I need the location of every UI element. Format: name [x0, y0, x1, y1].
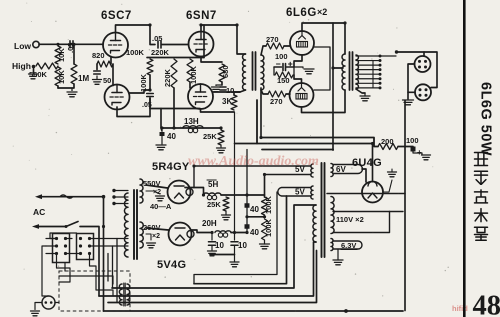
- svg-text:100K: 100K: [264, 195, 273, 214]
- tube V5 6U4G rectifier: [362, 182, 383, 203]
- transformer T3 550V winding: [140, 179, 143, 203]
- page border rule: [463, 0, 466, 317]
- capacitor 10 first: [209, 242, 216, 246]
- resistor 680 cathode: [219, 64, 225, 82]
- wire heater bus risers right: [116, 239, 118, 303]
- capacitor .05 input coupling: [70, 41, 73, 48]
- wire TB1 inner drop: [66, 238, 73, 240]
- transformer T2 core: [350, 52, 353, 90]
- node T3 primary taps: [114, 190, 128, 192]
- wire 820 to 50 cap: [96, 64, 98, 70]
- transformer T4 HV secondary left: [313, 205, 316, 242]
- op-amp U1 6SC7 triode A: [103, 33, 128, 58]
- page title vertical latin part: [478, 82, 494, 156]
- wire 6SC7 B plate: [130, 90, 151, 93]
- wire T1 secondary top to 270 grid resistor: [261, 46, 266, 55]
- svg-text:40: 40: [167, 132, 176, 141]
- switch S1: [66, 222, 78, 227]
- wire sockets left side: [408, 64, 415, 92]
- ground 6SN7 cathode: [212, 87, 221, 92]
- wire 6V to 6U4G: [362, 169, 366, 182]
- wire 680 bottom: [221, 82, 223, 85]
- transformer T1 core: [253, 52, 256, 90]
- wire V2 cathode to network: [294, 75, 302, 83]
- resistor 220K divider: [171, 59, 177, 88]
- wire T2 primary center tap B+: [333, 67, 343, 69]
- wire 5R4GY cathode to 5H: [185, 188, 204, 196]
- lamp PL1 pilot: [42, 296, 55, 309]
- wire 5V1 riser to 5R4GY: [193, 166, 195, 188]
- svg-text:20H: 20H: [202, 219, 217, 228]
- wire 13H feed riser: [332, 149, 334, 152]
- node High input junction: [32, 65, 36, 69]
- wire 6SC7 B cathode loop: [117, 98, 150, 117]
- wire T1 secondary center tap down: [260, 88, 262, 138]
- transformer T2 output primary: [342, 54, 345, 90]
- svg-text:6L6G: 6L6G: [286, 7, 317, 19]
- svg-text:6.3V: 6.3V: [341, 241, 356, 250]
- wire second 10 cap bus: [210, 254, 235, 256]
- wire B+ rail y57: [147, 57, 204, 59]
- capacitor 40 first filter: [245, 203, 250, 208]
- svg-text:100K: 100K: [126, 48, 145, 57]
- wire 10 second stub: [234, 112, 236, 255]
- svg-text:5V4G: 5V4G: [157, 259, 186, 271]
- resistor 560K: [36, 63, 58, 69]
- wire secondary top tap to sockets: [396, 52, 437, 88]
- svg-text:5R4GY: 5R4GY: [152, 161, 190, 173]
- page title vertical kanji glyphs: [475, 153, 488, 166]
- resistor 270 upper grid: [266, 43, 284, 49]
- wire 6SN7 B cathode line: [201, 109, 235, 112]
- wire 6SC7 A cathode: [110, 57, 112, 65]
- transformer T3 HV primary: [124, 193, 128, 257]
- wire V2 plate to OPT bottom: [302, 90, 346, 113]
- wire AC line 2 switch: [32, 224, 39, 229]
- wire 13H line: [162, 127, 221, 129]
- transformer T4 6V winding: [333, 165, 363, 174]
- wire bus from interstage CT to 200 ohm: [261, 138, 378, 147]
- resistor 820 cathode: [97, 61, 113, 67]
- svg-text:6SC7: 6SC7: [101, 10, 132, 22]
- svg-text:10K: 10K: [57, 48, 66, 62]
- wire 100K A bottom: [149, 75, 151, 90]
- tube V4 5V4G rectifier: [169, 223, 192, 246]
- connector J1 speaker socket upper: [415, 56, 431, 72]
- wire lamp to aux transformer: [55, 302, 59, 304]
- svg-text:50: 50: [103, 76, 111, 85]
- wire 270 to 6L6G V2 grid: [286, 93, 290, 95]
- wire V1 cathode to network: [294, 55, 302, 67]
- wire 6U4G plate riser: [372, 144, 374, 182]
- wire bleeder top riser: [264, 175, 266, 198]
- svg-text:220K: 220K: [151, 48, 170, 57]
- svg-text:820: 820: [92, 51, 105, 60]
- resistor 1M: [71, 64, 77, 84]
- node bottom bus junction: [344, 309, 348, 313]
- svg-text:10: 10: [215, 241, 224, 250]
- wire 6L6G screen bus: [314, 47, 330, 90]
- wire socket upper top pin: [423, 52, 425, 56]
- wire block riser left: [42, 246, 49, 296]
- svg-text:40—A: 40—A: [150, 202, 172, 211]
- resistor 25K bleeder upper: [218, 130, 224, 145]
- svg-text:48: 48: [473, 291, 500, 317]
- ground 25K upper: [217, 148, 226, 153]
- wire B+ rail riser: [203, 25, 205, 58]
- resistor 3K: [231, 95, 237, 110]
- wire T1 secondary bottom to 270 lower: [261, 90, 268, 94]
- ground second 10 cap: [230, 262, 239, 267]
- wire 6SC7 B cathode: [112, 64, 114, 86]
- resistor 270 lower grid: [268, 91, 286, 97]
- ground 10 first: [208, 251, 217, 256]
- connector TB2 block: [77, 234, 94, 260]
- svg-text:40: 40: [250, 228, 259, 237]
- wire heater bus 1: [107, 254, 109, 282]
- wire 270 to 6L6G V1 grid: [284, 45, 290, 47]
- svg-text:AC: AC: [33, 207, 45, 217]
- ground cathode 6SC7: [93, 80, 102, 85]
- tube V3 5R4GY rectifier: [168, 181, 191, 204]
- op-amp U1 6SC7 triode B: [105, 85, 130, 110]
- svg-text:.05: .05: [152, 34, 162, 43]
- wire 100K B bottom: [189, 82, 191, 88]
- wire 20H to 40uF: [231, 232, 247, 234]
- resistor 10K upper: [55, 46, 61, 64]
- svg-text:hifid: hifid: [452, 304, 468, 313]
- ground 6.3V center tap: [333, 260, 343, 265]
- svg-text:680: 680: [221, 65, 230, 78]
- ground cathode 6L6G: [304, 69, 314, 74]
- svg-text:10: 10: [226, 86, 234, 95]
- node junction dots: [56, 43, 59, 46]
- wire TB1 TB2 link top: [50, 233, 77, 239]
- wire V1 plate to OPT top: [302, 23, 345, 54]
- wire 6SC7 A plate to B+ rail: [116, 25, 151, 33]
- wire 6SN7 A plate to B+: [201, 25, 237, 32]
- connector TB1 block: [53, 234, 70, 263]
- svg-text:www.Audio-audio.com: www.Audio-audio.com: [188, 154, 319, 169]
- wire crossbar mid: [247, 216, 265, 218]
- ground 550V center tap: [156, 196, 165, 201]
- svg-text:×2: ×2: [152, 233, 160, 240]
- ground grid network: [67, 92, 77, 97]
- wire 1M top stub: [73, 44, 75, 64]
- wire HV secondary top line: [327, 193, 405, 195]
- wire filter caps vertical: [246, 150, 248, 233]
- wire TB1 bottom pin drop: [57, 254, 71, 283]
- wire 260V to 5V4G: [146, 228, 169, 230]
- node Low input terminal: [33, 41, 39, 47]
- svg-text:100K: 100K: [264, 218, 273, 237]
- ground 100uF: [422, 155, 431, 160]
- svg-text:5V: 5V: [295, 188, 305, 197]
- svg-text:3K: 3K: [222, 97, 232, 106]
- wire bottom bus: [104, 310, 404, 312]
- transformer T5 heater coils: [119, 284, 122, 305]
- svg-text:100K: 100K: [189, 65, 198, 84]
- wire TB1 left stubs: [46, 238, 57, 240]
- wire 6L6G return bus: [257, 100, 373, 144]
- inductor 13H choke: [183, 126, 203, 128]
- ground 6U4G stub: [388, 172, 397, 177]
- svg-text:5H: 5H: [208, 180, 218, 189]
- dashed chassis boundary: [59, 271, 130, 311]
- capacitor .05 coupling lower: [147, 94, 154, 97]
- wire 110V return down: [108, 251, 317, 303]
- svg-text:270: 270: [266, 35, 279, 44]
- capacitor 100uF screen filter: [411, 147, 416, 152]
- wire grid network bottom: [58, 84, 74, 88]
- wire TB2 bottom drop: [90, 254, 114, 297]
- ground pilot lamp: [31, 311, 40, 316]
- transformer T2 secondary: [356, 55, 358, 89]
- transformer T3 core: [134, 190, 137, 259]
- transformer T4 6.3V winding: [333, 241, 362, 249]
- svg-text:6SN7: 6SN7: [186, 10, 217, 22]
- wire 6SN7 A cathode to 680: [201, 57, 222, 63]
- wire tap bus vertical: [372, 61, 374, 89]
- wire 220K bottom to bus: [173, 88, 175, 128]
- wire HV winding top feed: [112, 205, 316, 288]
- svg-text:6V: 6V: [336, 165, 346, 174]
- wire AC line 2 to bundle: [80, 227, 99, 297]
- op-amp U2 6SN7 triode A: [189, 32, 214, 57]
- capacitor 100 cathode bypass: [274, 66, 294, 68]
- capacitor .05 coupling upper: [158, 41, 161, 48]
- inductor 5H choke: [203, 193, 221, 195]
- wire cathode network right: [293, 67, 295, 75]
- resistor 100K bleeder upper: [262, 197, 268, 215]
- wire riser to 13H line: [161, 128, 162, 131]
- transformer T4 core: [322, 163, 325, 257]
- wire Low input to 6SC7 grid: [39, 43, 103, 45]
- wire screen bus: [262, 149, 333, 151]
- svg-text:100: 100: [275, 52, 288, 61]
- wire nest inner riser: [194, 192, 277, 284]
- svg-text:1M: 1M: [78, 74, 89, 83]
- svg-text:200: 200: [381, 137, 394, 146]
- wire 3K top stub: [234, 92, 240, 95]
- wire 6SC7 plate to .05: [150, 25, 155, 45]
- svg-text:40: 40: [250, 205, 259, 214]
- capacitor 10 cathode bypass: [220, 87, 226, 90]
- wire 6SN7 plate line to T1 primary top: [237, 25, 246, 54]
- ground speaker common: [403, 100, 414, 105]
- wire 550V to 5R4GY: [146, 185, 168, 188]
- ground 260V center tap: [147, 243, 156, 248]
- ground .40 cap: [156, 145, 166, 150]
- svg-text:100: 100: [406, 136, 419, 145]
- ground 100K chain: [260, 244, 270, 249]
- transformer T3 260V winding: [140, 222, 143, 248]
- ground T2 secondary bottom: [356, 89, 365, 93]
- scan speckles: [149, 49, 150, 50]
- wire socket ground stub: [407, 92, 409, 99]
- wire 5V4G to 20H: [192, 230, 211, 233]
- wire TB2 to transformer primary rows: [90, 238, 129, 240]
- node AC line 1 junction: [102, 195, 106, 199]
- wire 10K chain bottom: [57, 86, 59, 88]
- svg-text:25K: 25K: [203, 132, 217, 141]
- svg-text:×2: ×2: [317, 7, 327, 17]
- resistor 200 screen supply: [378, 144, 398, 150]
- capacitor .40 decoupling: [160, 132, 165, 136]
- wire AC line 1 down: [103, 197, 105, 311]
- capacitor 10 second: [231, 242, 238, 246]
- wire coupling cap to 6SN7 B grid: [150, 98, 200, 109]
- ground below High terminal: [29, 74, 38, 79]
- svg-text:13H: 13H: [184, 117, 199, 126]
- wire 200 to 100uF: [398, 146, 413, 148]
- svg-text:220K: 220K: [163, 68, 172, 87]
- capacitor 40 second filter: [245, 224, 250, 229]
- svg-text:10K: 10K: [57, 70, 66, 84]
- resistor 25K bleeder lower: [223, 197, 229, 211]
- transistor V1 6L6G upper: [290, 31, 314, 55]
- resistor 10K lower: [55, 67, 61, 86]
- transformer T4 110V primary: [333, 212, 390, 233]
- wire cathode network left: [273, 67, 275, 75]
- wire ground bus down right side: [404, 101, 406, 148]
- wire bus riser from coupling line: [160, 109, 162, 129]
- wire 6SN7 B plate to T1 primary bottom: [213, 90, 246, 92]
- ground 25K lower: [222, 215, 231, 220]
- op-amp U2 6SN7 triode B: [188, 84, 213, 109]
- node T2 secondary taps: [356, 55, 396, 57]
- capacitor 50 cathode bypass: [94, 71, 101, 74]
- transistor V2 6L6G lower: [290, 83, 314, 107]
- connector J2 speaker socket lower: [415, 84, 431, 100]
- svg-text:110V ×2: 110V ×2: [336, 215, 364, 224]
- wire HV winding bottom down: [99, 242, 316, 296]
- svg-text:270: 270: [270, 97, 283, 106]
- inductor 20H choke: [215, 231, 231, 233]
- svg-text:25K: 25K: [207, 200, 221, 209]
- svg-text:Low: Low: [14, 41, 31, 51]
- wire High terminal stub: [33, 67, 35, 74]
- wire heater bus 2: [112, 246, 114, 288]
- svg-text:10: 10: [238, 241, 247, 250]
- resistor 100K plate A vertical: [147, 59, 153, 75]
- transformer T4 5V winding 1: [194, 166, 311, 175]
- wire aux transformer leads: [59, 276, 113, 284]
- svg-text:6L6G 50W: 6L6G 50W: [478, 82, 494, 156]
- wire AC line 1 fuse: [35, 194, 42, 199]
- transformer T4 5V winding 2: [278, 188, 311, 197]
- wire 5H to filter node: [221, 194, 265, 196]
- wire 5V2 feed down: [194, 196, 287, 284]
- resistor 100K bleeder lower: [262, 219, 268, 240]
- wire .05 to 6SN7 A grid: [162, 44, 189, 46]
- resistor 150 cathode: [275, 72, 293, 78]
- transformer T1 interstage primary: [243, 54, 246, 90]
- svg-text:150: 150: [277, 76, 290, 85]
- resistor 100K plate B vertical: [187, 59, 193, 82]
- transformer T1 secondary: [261, 55, 264, 90]
- svg-text:6U4G: 6U4G: [352, 157, 382, 169]
